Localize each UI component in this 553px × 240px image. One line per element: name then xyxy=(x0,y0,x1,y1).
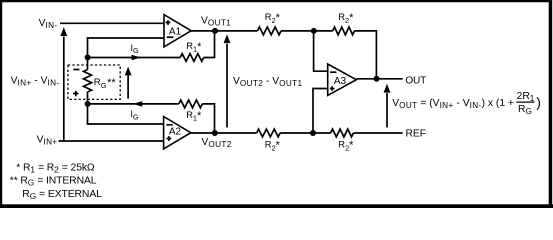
wire top junction down to A3 inverting input xyxy=(314,31,328,71)
op-amp A2 xyxy=(164,117,191,149)
resistor R1 bottom xyxy=(179,100,203,108)
resistor R2 top-right (A3 feedback) xyxy=(333,27,355,35)
svg-text:** RG = INTERNAL: ** RG = INTERNAL xyxy=(10,176,97,188)
svg-text:): ) xyxy=(536,94,541,110)
current arrow IG top (right) xyxy=(132,55,141,61)
wire bottom rail to REF xyxy=(353,132,402,134)
A2 pin + (noninverting) xyxy=(167,136,172,141)
A1 pin + (noninverting) xyxy=(166,20,171,25)
wire bottom rail between R2c and R2d xyxy=(280,132,331,134)
wire A3 output to OUT xyxy=(356,78,402,80)
A2 pin - (inverting) xyxy=(166,124,172,126)
svg-text:REF: REF xyxy=(406,128,427,139)
A1 pin - (inverting) xyxy=(167,36,174,38)
A3 pin - (inverting) xyxy=(330,71,336,73)
wire A2 inverting input to RG bottom junction xyxy=(88,104,164,124)
wire bottom junction up to A3 noninverting input xyxy=(313,89,328,134)
wire VIN- input to A1 noninverting input xyxy=(60,22,164,24)
node top junction (A3 inverting) xyxy=(311,28,317,34)
node RG bottom junction xyxy=(85,101,91,107)
svg-text:A2: A2 xyxy=(169,126,182,137)
RG box polarity + xyxy=(73,91,79,97)
wire VIN+ input to A2 noninverting input xyxy=(59,140,164,142)
op-amp A1 xyxy=(164,15,191,47)
wire feedback down to A3 output node xyxy=(354,31,376,79)
wire top rail between R2a and R2b xyxy=(281,30,333,32)
wire top rail A1 output to R2a xyxy=(191,30,258,32)
node bottom junction (A3 noninverting) xyxy=(310,130,316,136)
arrow VOUT (up) xyxy=(386,93,388,127)
svg-text:A1: A1 xyxy=(169,27,182,38)
wire bottom rail A2 output to R2c xyxy=(191,132,257,134)
arrow RG sense (up) xyxy=(127,76,129,99)
arrow VOUT2-VOUT1 (up) xyxy=(226,44,228,128)
A3 pin + (noninverting) xyxy=(330,86,335,91)
resistor R2 bottom-left xyxy=(257,129,281,137)
RG box polarity - xyxy=(73,69,79,71)
wire IG top: RG top junction through R1 to VOUT1 xyxy=(88,57,181,59)
current arrow IG bottom (left) xyxy=(133,101,142,107)
resistor RG (gain) xyxy=(84,70,92,93)
node A3 output xyxy=(374,76,380,82)
wire A1 inverting input to RG top junction xyxy=(88,38,165,57)
RG internal/external dashed box xyxy=(68,65,120,99)
node VOUT2 xyxy=(212,130,218,136)
resistor R2 top-left xyxy=(258,27,282,35)
op-amp A3 xyxy=(328,64,357,95)
resistor R1 top xyxy=(180,54,204,62)
node RG top junction xyxy=(85,54,91,60)
label output formula VOUT = (VIN+ - VIN-) x (1 + 2R1/RG) xyxy=(392,91,541,116)
svg-text:OUT: OUT xyxy=(405,75,426,86)
resistor R2 bottom-right xyxy=(331,129,354,137)
svg-text:A3: A3 xyxy=(334,76,347,87)
node VOUT1 xyxy=(212,28,218,34)
arrow differential input VIN+ - VIN- (up) xyxy=(63,37,65,142)
wire IG bottom: RG bottom junction through R1 to VOUT2 xyxy=(88,103,179,105)
wire RG vertical through gain resistor xyxy=(87,58,89,70)
